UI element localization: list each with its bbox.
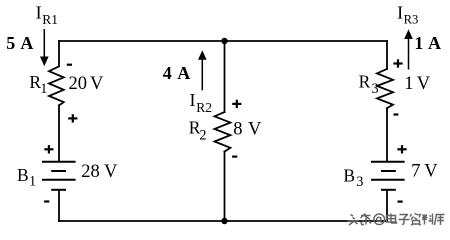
wire left branch middle (R1 to B1) (58, 105, 60, 161)
watermark char dian (387, 214, 397, 224)
svg-text:V: V (90, 74, 104, 94)
label IR3 (397, 3, 418, 27)
resistor R1 (49, 66, 64, 105)
wire middle branch lower (224, 152, 226, 221)
label 28 V (81, 162, 118, 182)
resistor R2 (215, 112, 231, 152)
watermark char tou (348, 215, 360, 226)
label R1 (29, 72, 47, 97)
label 20 V (69, 74, 105, 94)
label B1 (17, 165, 36, 190)
label minus at B3 bottom (398, 201, 403, 203)
svg-text:2: 2 (199, 128, 206, 144)
svg-text:V: V (104, 162, 118, 182)
svg-text:20: 20 (69, 74, 88, 94)
label 5 A (6, 33, 33, 53)
svg-text:I: I (190, 90, 196, 110)
svg-text:5: 5 (6, 33, 15, 53)
wire right branch lower (B3 to bottom) (386, 190, 388, 221)
label R2 (189, 118, 207, 144)
watermark char tiao (361, 214, 372, 225)
label 8 V (233, 120, 262, 140)
svg-text:I: I (397, 3, 403, 23)
svg-text:V: V (424, 162, 438, 182)
svg-text:A: A (177, 63, 190, 83)
label plus at R2 top (232, 100, 241, 108)
svg-text:A: A (428, 33, 441, 53)
label IR1 (36, 3, 58, 28)
battery B1 plates (42, 162, 76, 190)
label plus at B1 top (44, 145, 53, 153)
svg-text:R: R (359, 72, 371, 92)
svg-text:1: 1 (404, 74, 413, 94)
svg-text:8: 8 (233, 120, 242, 140)
svg-text:V: V (417, 74, 431, 94)
label B3 (343, 165, 363, 190)
watermark char liao (422, 214, 433, 225)
resistor R3 (377, 69, 393, 108)
label plus at R3 top (393, 59, 402, 67)
watermark char zi (399, 215, 410, 225)
wire bottom horizontal (59, 220, 387, 222)
node bottom (junction dot) (221, 218, 227, 224)
svg-text:B: B (343, 165, 355, 185)
node top (junction dot) (221, 38, 227, 44)
svg-text:3: 3 (356, 174, 363, 190)
svg-text:R3: R3 (404, 13, 419, 27)
label minus at B1 bottom (44, 200, 49, 202)
svg-text:4: 4 (163, 63, 172, 83)
wire right branch upper (386, 41, 388, 69)
watermark at-sign (374, 214, 385, 225)
svg-text:V: V (248, 120, 262, 140)
svg-text:3: 3 (372, 81, 379, 97)
svg-text:R1: R1 (42, 12, 58, 27)
label 4 A (163, 63, 191, 83)
battery B3 plates (371, 162, 405, 190)
wire middle branch upper (224, 41, 226, 112)
watermark char zi2 (410, 214, 421, 226)
svg-text:1: 1 (414, 33, 423, 53)
svg-text:A: A (20, 33, 33, 53)
wire left branch upper (58, 41, 60, 66)
svg-text:I: I (36, 3, 42, 23)
svg-text:B: B (17, 165, 29, 185)
svg-text:28: 28 (81, 162, 100, 182)
current arrow IR3 (up) (404, 29, 413, 69)
current arrow IR2 (up) (198, 50, 207, 90)
label 1 V (404, 74, 431, 94)
svg-text:R2: R2 (196, 100, 212, 115)
current arrow IR1 (down) (40, 29, 49, 66)
label R3 (359, 72, 379, 97)
label 7 V (411, 162, 438, 182)
wire right branch middle (R3 to B3) (386, 108, 388, 161)
svg-text:1: 1 (40, 81, 47, 97)
watermark char ku (435, 215, 445, 226)
label minus at R1 top (67, 64, 72, 66)
wire left branch lower (B1 to bottom) (58, 190, 60, 221)
label minus at R3 bottom (394, 113, 399, 115)
label 1 A (414, 33, 441, 53)
svg-text:7: 7 (411, 162, 420, 182)
label plus at R1 bottom (68, 114, 77, 122)
label IR2 (190, 90, 212, 115)
label minus at R2 bottom (232, 156, 237, 158)
label plus at B3 top (397, 145, 406, 153)
svg-text:1: 1 (29, 174, 36, 190)
wire top horizontal (59, 40, 387, 42)
